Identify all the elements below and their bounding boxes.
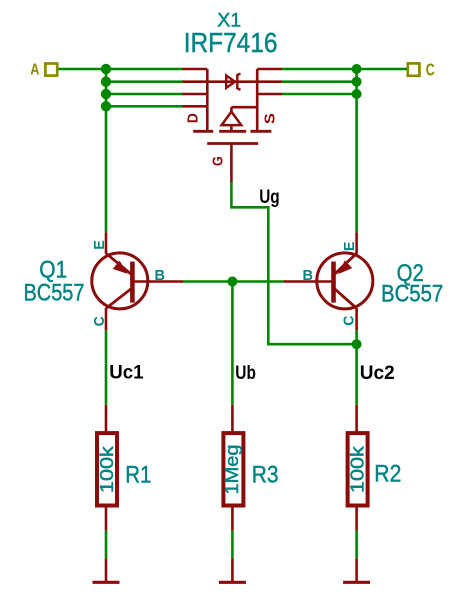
resistor R1 body (97, 433, 117, 505)
resistor R2 bottom pin (355, 506, 358, 531)
transistor Q1 value BC557 (24, 279, 85, 306)
junction dot left row1 (101, 64, 111, 74)
transistor Q1 reference (39, 257, 67, 284)
resistor R1 top pin (105, 405, 108, 433)
wire base to R3 (231, 282, 234, 405)
pin label C (Q1) (91, 316, 108, 326)
mosfet X1 value IRF7416 (184, 27, 278, 58)
transistor Q1 base pin (132, 280, 183, 283)
mosfet X1 body diode row wire (183, 80, 282, 83)
transistor Q2 value BC557 (381, 280, 443, 307)
junction dot base rail (227, 277, 237, 287)
net label Uc1 (109, 363, 144, 384)
svg-text:C: C (341, 315, 358, 325)
ground bar R1 (93, 558, 120, 582)
svg-text:D: D (185, 113, 202, 123)
svg-text:IRF7416: IRF7416 (184, 27, 278, 58)
transistor Q1 collector pin (105, 308, 108, 331)
label C (426, 59, 435, 79)
svg-text:A: A (30, 61, 40, 78)
wire left row2 (106, 80, 183, 83)
wire left row3 (106, 93, 183, 96)
junction dot left row2 (101, 77, 111, 87)
svg-text:B: B (303, 267, 314, 284)
mosfet X1 body diode D1 (226, 74, 240, 90)
transistor Q2 collector pin (355, 308, 358, 331)
mosfet X1 substrate stub (230, 125, 233, 131)
hierarchical pin A square (45, 64, 57, 76)
svg-text:C: C (91, 316, 108, 326)
svg-text:Uc1: Uc1 (109, 363, 144, 384)
net label Ug (259, 187, 280, 208)
transistor Q2 emitter pin (355, 232, 358, 253)
svg-text:100k: 100k (97, 445, 117, 493)
resistor R2 reference (374, 461, 401, 488)
pin label B (Q1) (155, 267, 166, 284)
hierarchical pin C square (408, 63, 420, 75)
label A (30, 61, 40, 78)
svg-text:E: E (341, 242, 358, 252)
resistor R3 value 1Meg (222, 445, 242, 495)
mosfet X1 source-body connection (231, 107, 257, 112)
resistor R2 body (348, 433, 368, 505)
svg-text:BC557: BC557 (24, 279, 85, 306)
mosfet X1 drain bus bar (206, 69, 209, 131)
pin label C (Q2) (341, 315, 358, 325)
junction dot left row4 (101, 101, 111, 111)
svg-text:R1: R1 (125, 461, 151, 488)
wire gate to Ug corner (231, 182, 356, 344)
pin label D (185, 113, 202, 123)
wire A to left column row1 (58, 68, 183, 71)
mosfet X1 substrate arrow triangle (222, 112, 242, 126)
junction dot right row2 (352, 77, 362, 87)
transistor Q2 body (317, 253, 373, 309)
wire left vertical column (105, 69, 108, 232)
transistor Q1 body (92, 253, 148, 309)
svg-text:E: E (91, 240, 108, 250)
ground bar R3 (219, 558, 246, 582)
ground bar R2 (343, 558, 370, 582)
mosfet X1 drain pins (183, 69, 208, 106)
wire Q1 collector to R1 (105, 331, 108, 405)
svg-text:B: B (155, 267, 166, 284)
pin label G (210, 156, 227, 166)
mosfet X1 gate plate (207, 142, 258, 145)
svg-text:C: C (426, 59, 435, 79)
junction dot left row3 (101, 89, 111, 99)
resistor R2 value 100k (348, 445, 368, 493)
wire left row4 (106, 105, 183, 108)
svg-text:Ug: Ug (259, 187, 280, 208)
transistor Q2 base pin (284, 280, 334, 283)
resistor R1 reference (125, 461, 151, 488)
wire R3 to ground (231, 531, 234, 559)
resistor R3 bottom pin (231, 506, 234, 531)
pin label S (261, 113, 278, 124)
mosfet X1 source pins (257, 69, 282, 94)
mosfet X1 gate pin (230, 144, 233, 183)
junction dot right row1 (352, 64, 362, 74)
transistor Q2 reference (397, 260, 424, 287)
junction dot Uc2 node (352, 339, 362, 349)
mosfet X1 reference (217, 10, 241, 32)
svg-text:Uc2: Uc2 (360, 363, 395, 384)
wire Q2 collector to junction (355, 331, 358, 405)
pin label E (Q2) (341, 242, 358, 252)
resistor R3 body (223, 433, 243, 505)
wire right vertical column (355, 69, 358, 232)
net label Uc2 (360, 363, 395, 384)
resistor R3 top pin (231, 405, 234, 433)
svg-text:BC557: BC557 (381, 280, 443, 307)
wire right row2 (282, 80, 357, 83)
wire base rail (183, 280, 284, 283)
svg-text:Ub: Ub (235, 363, 256, 384)
net label Ub (235, 363, 256, 384)
pin label B (Q2) (303, 267, 314, 284)
wire R1 to ground (105, 531, 108, 559)
svg-text:S: S (261, 113, 278, 124)
mosfet X1 channel segments (193, 130, 271, 133)
svg-text:1Meg: 1Meg (222, 445, 242, 495)
resistor R3 reference (252, 461, 279, 488)
wire right row1 to C (282, 68, 407, 71)
wire right row3 (282, 93, 357, 96)
mosfet X1 source bus bar (256, 69, 259, 131)
svg-text:100k: 100k (348, 445, 368, 493)
transistor Q1 emitter pin (105, 232, 108, 253)
pin label E (Q1) (91, 240, 108, 250)
junction dot right row3 (352, 89, 362, 99)
resistor R1 bottom pin (105, 506, 108, 531)
svg-text:R2: R2 (374, 461, 401, 488)
svg-text:G: G (210, 156, 227, 166)
resistor R2 top pin (355, 405, 358, 433)
svg-text:R3: R3 (252, 461, 279, 488)
wire R2 to ground (355, 531, 358, 559)
resistor R1 value 100k (97, 445, 117, 493)
